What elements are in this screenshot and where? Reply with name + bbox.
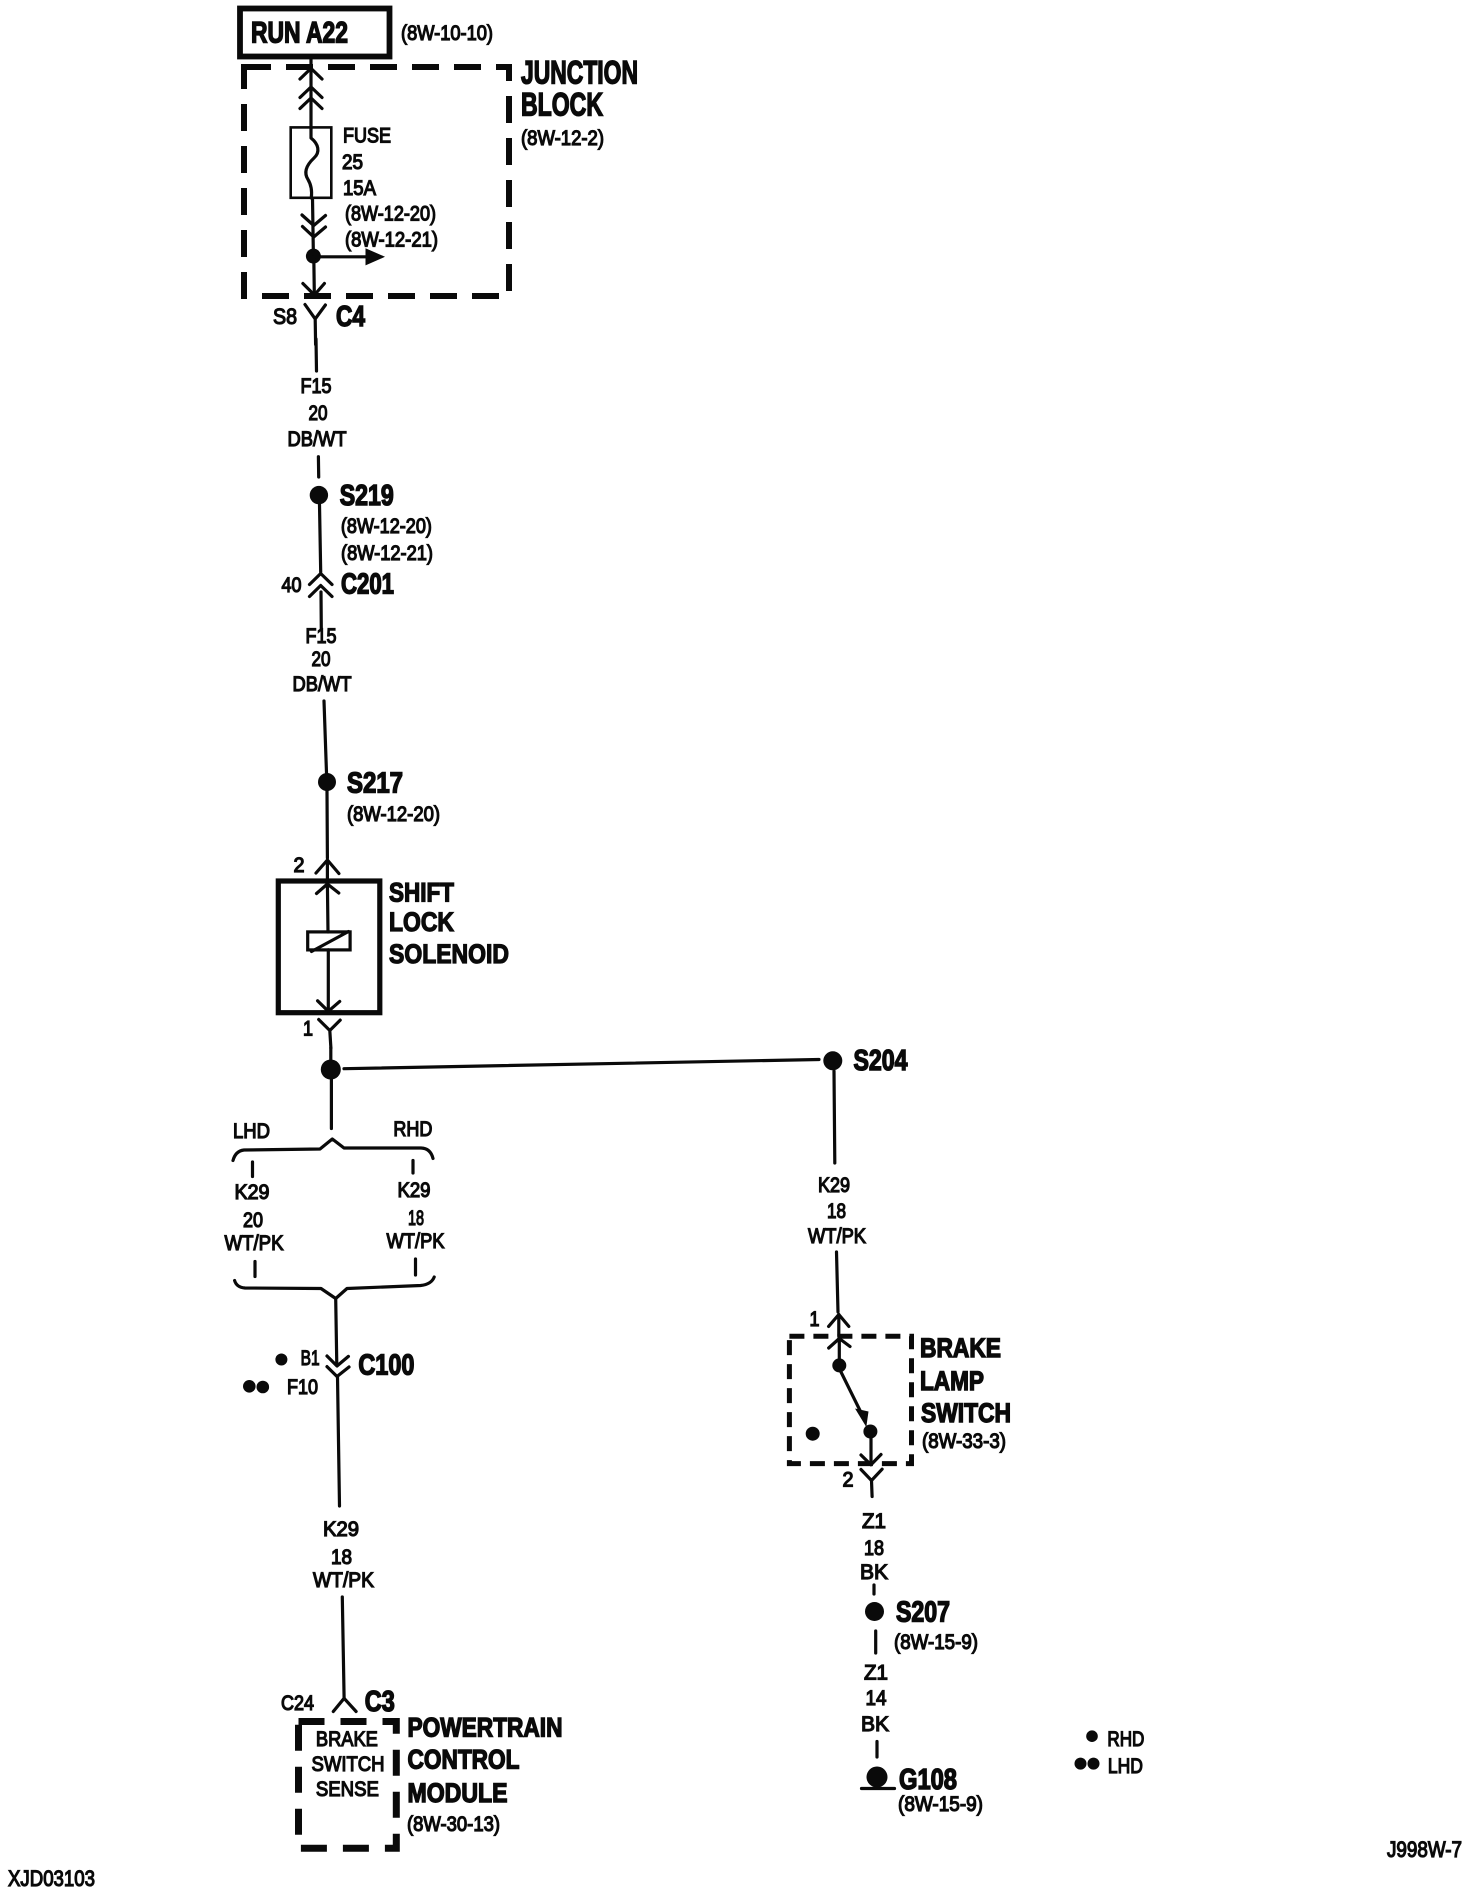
legend RHD dot (1086, 1728, 1144, 1751)
pin 2 connector Y (861, 1469, 882, 1496)
svg-text:POWERTRAIN: POWERTRAIN (408, 1713, 563, 1743)
switch upper contact dot (832, 1358, 846, 1372)
switch arm with arrowhead (841, 1372, 869, 1427)
pin 1 connector Y (319, 1020, 341, 1049)
svg-text:SHIFT: SHIFT (389, 878, 454, 908)
svg-text:Z1: Z1 (864, 1662, 888, 1685)
switch alternate contact dot (RHD) (806, 1427, 820, 1441)
svg-text:2: 2 (294, 854, 305, 877)
svg-text:F10: F10 (287, 1376, 318, 1399)
pin F10 dots (LHD) (243, 1380, 269, 1393)
svg-text:RUN A22: RUN A22 (251, 17, 348, 50)
svg-text:FUSE: FUSE (343, 125, 391, 148)
svg-text:S204: S204 (854, 1045, 908, 1077)
wire junction down to split (330, 1079, 333, 1129)
svg-text:DB/WT: DB/WT (288, 428, 347, 451)
svg-text:S207: S207 (896, 1597, 950, 1629)
wire to S217 (324, 701, 327, 773)
svg-text:SOLENOID: SOLENOID (389, 939, 509, 969)
powertrain control module dashed box (299, 1722, 397, 1849)
wire to brake lamp switch (837, 1252, 839, 1312)
svg-text:BK: BK (861, 1713, 889, 1736)
wire fuse to junction dot (311, 198, 315, 250)
connector C4 symbol (305, 305, 325, 345)
feed box RUN A22 (240, 9, 390, 57)
wire label K29 18 WT/PK (313, 1518, 374, 1592)
splice S217 (318, 768, 403, 800)
right wire label K29 18 WT/PK (387, 1179, 445, 1253)
svg-text:(8W-15-9): (8W-15-9) (894, 1631, 978, 1654)
S219 references (341, 515, 433, 565)
connector C100 symbol (double chevron) (327, 1356, 349, 1377)
pin 1 arrow inside box (829, 1339, 850, 1361)
wire tick to S207 (872, 1585, 875, 1594)
svg-text:(8W-12-20): (8W-12-20) (341, 515, 432, 538)
svg-text:J998W-7: J998W-7 (1387, 1837, 1462, 1862)
svg-text:LOCK: LOCK (389, 907, 454, 937)
svg-text:C100: C100 (358, 1350, 414, 1382)
svg-text:K29: K29 (323, 1518, 359, 1541)
connector C3 symbol (333, 1698, 356, 1711)
svg-text:RHD: RHD (393, 1118, 432, 1141)
svg-text:S8: S8 (273, 304, 297, 329)
solenoid coil symbol (308, 932, 350, 952)
wire S217 to pin 2 (325, 791, 329, 858)
splice S219 (310, 480, 394, 512)
svg-text:F15: F15 (301, 375, 332, 398)
wire C201 down (319, 592, 322, 630)
wire S219 to C201 (320, 505, 321, 573)
wire S207 down (874, 1631, 877, 1653)
splice S204 (823, 1045, 907, 1077)
svg-text:SENSE: SENSE (316, 1778, 379, 1801)
svg-text:1: 1 (303, 1018, 313, 1041)
svg-text:G108: G108 (899, 1764, 957, 1796)
wire coil to box bottom (327, 950, 330, 1011)
svg-text:WT/PK: WT/PK (313, 1569, 374, 1592)
wire merge down to C100 (336, 1299, 337, 1366)
svg-text:BRAKE: BRAKE (920, 1333, 1001, 1363)
junction dot in junction block (306, 249, 321, 264)
connector C201 symbol (double chevron) (310, 574, 333, 597)
svg-text:2: 2 (843, 1469, 854, 1492)
wire junction to S204 (344, 1060, 819, 1069)
svg-text:(8W-10-10): (8W-10-10) (401, 22, 493, 45)
switch lower contact dot (863, 1425, 877, 1439)
pin 2 chevron (316, 860, 339, 881)
wire label K29 18 WT/PK (808, 1174, 866, 1248)
wire junction dot to C4 (312, 257, 316, 293)
splice S207 (865, 1597, 950, 1629)
right merge tick (414, 1259, 417, 1275)
svg-text:BRAKE: BRAKE (316, 1728, 378, 1751)
svg-text:RHD: RHD (1107, 1728, 1144, 1751)
wire label F15 20 DB/WT (293, 625, 352, 696)
pin B1 dot (RHD) (275, 1354, 287, 1366)
svg-text:C4: C4 (336, 301, 365, 333)
merge brace lower (235, 1277, 435, 1299)
junction node dot (321, 1060, 341, 1080)
svg-text:18: 18 (331, 1546, 352, 1569)
label SHIFT LOCK SOLENOID (389, 878, 509, 970)
svg-text:(8W-12-20): (8W-12-20) (347, 803, 440, 826)
wire label F15 20 DB/WT (288, 375, 347, 451)
pin 2 arrow inside box (317, 884, 339, 932)
svg-text:S217: S217 (347, 768, 403, 800)
svg-text:LHD: LHD (1108, 1755, 1143, 1778)
in-line double chevron up (300, 87, 322, 109)
wire S204 down (832, 1071, 836, 1163)
svg-text:XJD03103: XJD03103 (8, 1866, 95, 1891)
svg-text:LHD: LHD (233, 1120, 270, 1143)
ground G108 symbol (862, 1767, 895, 1789)
wire C100 down (338, 1377, 340, 1507)
pin 1 chevron (829, 1315, 849, 1337)
svg-text:K29: K29 (235, 1181, 270, 1204)
arrow chevron at box bottom (318, 1001, 340, 1012)
svg-text:(8W-12-21): (8W-12-21) (341, 542, 433, 565)
wire C4 down (314, 339, 318, 371)
svg-text:1: 1 (810, 1308, 820, 1331)
svg-text:SWITCH: SWITCH (312, 1753, 385, 1776)
label POWERTRAIN CONTROL MODULE (407, 1713, 563, 1837)
fuse 25 15A (291, 127, 332, 198)
right branch tick (411, 1161, 414, 1174)
svg-text:20: 20 (309, 402, 328, 425)
svg-text:(8W-33-3): (8W-33-3) (922, 1430, 1006, 1453)
svg-text:15A: 15A (343, 177, 376, 200)
legend LHD dots (1075, 1755, 1143, 1778)
brake lamp switch dashed box (789, 1336, 911, 1463)
svg-text:(8W-12-2): (8W-12-2) (521, 127, 604, 150)
svg-text:WT/PK: WT/PK (225, 1232, 284, 1255)
svg-text:(8W-15-9): (8W-15-9) (898, 1793, 983, 1816)
wire label Z1 18 BK (860, 1510, 888, 1584)
svg-text:18: 18 (408, 1207, 424, 1230)
split brace upper (233, 1139, 433, 1161)
in-line double chevron down (302, 215, 326, 237)
svg-text:C3: C3 (365, 1686, 395, 1718)
svg-text:WT/PK: WT/PK (387, 1230, 445, 1253)
svg-text:25: 25 (342, 151, 363, 174)
svg-text:(8W-30-13): (8W-30-13) (407, 1813, 500, 1836)
svg-text:(8W-12-21): (8W-12-21) (345, 229, 438, 252)
svg-text:WT/PK: WT/PK (808, 1225, 866, 1248)
svg-text:MODULE: MODULE (408, 1778, 508, 1808)
svg-text:BLOCK: BLOCK (521, 87, 603, 123)
fuse labels (342, 125, 438, 252)
arrow chevron up at junction block edge (300, 68, 322, 79)
svg-text:K29: K29 (818, 1174, 850, 1197)
svg-text:B1: B1 (301, 1347, 320, 1370)
label JUNCTION BLOCK (8W-12-2) (521, 55, 638, 151)
label BRAKE LAMP SWITCH (8W-33-3) (920, 1333, 1011, 1453)
svg-text:20: 20 (312, 648, 331, 671)
left merge tick (253, 1262, 256, 1277)
svg-text:S219: S219 (340, 480, 394, 512)
svg-text:JUNCTION: JUNCTION (521, 55, 638, 91)
svg-text:18: 18 (864, 1537, 884, 1560)
label BRAKE SWITCH SENSE (312, 1728, 385, 1801)
svg-text:40: 40 (282, 574, 302, 597)
svg-text:(8W-12-20): (8W-12-20) (345, 203, 436, 226)
svg-text:20: 20 (243, 1209, 263, 1232)
wire to C3 (342, 1597, 344, 1698)
wire label Z1 14 BK (861, 1662, 889, 1737)
svg-text:BK: BK (860, 1561, 888, 1584)
svg-text:LAMP: LAMP (920, 1366, 984, 1396)
svg-text:C201: C201 (341, 569, 394, 601)
svg-text:Z1: Z1 (862, 1510, 886, 1533)
svg-text:18: 18 (827, 1200, 846, 1223)
junction block dashed box (244, 67, 509, 296)
shift lock solenoid box (278, 881, 380, 1013)
wire pin 1 to junction (329, 1048, 332, 1060)
wire tick to G108 (875, 1742, 878, 1758)
svg-text:K29: K29 (398, 1179, 431, 1202)
arrow chevron at box bottom (861, 1455, 881, 1465)
svg-text:CONTROL: CONTROL (408, 1745, 520, 1775)
arrow chevron down at junction block edge (303, 284, 325, 296)
wire RUN A22 to fuse (309, 56, 312, 129)
wire lower contact to box bottom (869, 1438, 872, 1463)
wire to S219 (317, 457, 321, 477)
svg-text:DB/WT: DB/WT (293, 673, 352, 696)
svg-text:F15: F15 (306, 625, 337, 648)
left wire label K29 20 WT/PK (225, 1181, 284, 1255)
svg-text:SWITCH: SWITCH (921, 1398, 1011, 1428)
svg-text:C24: C24 (281, 1692, 314, 1715)
left branch tick (251, 1162, 254, 1177)
svg-text:14: 14 (866, 1687, 887, 1710)
arrow to other circuits (313, 248, 385, 265)
